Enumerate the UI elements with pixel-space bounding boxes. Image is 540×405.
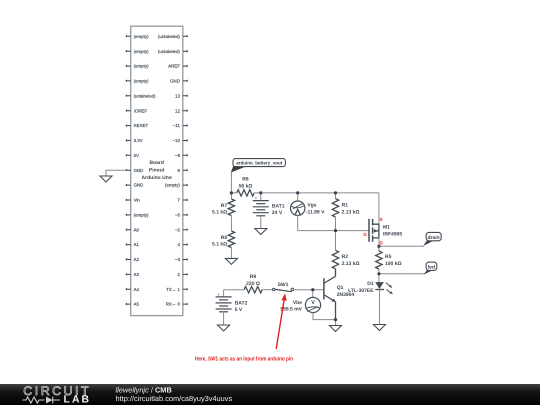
wire R7 to R8 [230, 216, 232, 232]
svg-text:+: + [255, 195, 258, 200]
svg-text:5V: 5V [134, 153, 139, 158]
svg-text:2.13 kΩ: 2.13 kΩ [342, 209, 360, 215]
LED D1 LTL-307EE [348, 274, 393, 325]
node junction dot [334, 191, 337, 194]
net flag arduino_battery_vout [231, 159, 286, 173]
svg-text:56 kΩ: 56 kΩ [239, 184, 253, 190]
svg-text:S: S [380, 217, 383, 222]
pin right 11 ((empty)) [165, 183, 187, 188]
logo schematic doodle (resistor + diode) [23, 397, 61, 404]
svg-text:~10: ~10 [172, 138, 180, 143]
svg-text:Vin: Vin [134, 198, 141, 203]
voltmeter Vgs (flipped) [291, 193, 326, 231]
svg-text:M1: M1 [383, 225, 390, 231]
node junction dot [377, 272, 380, 275]
pin left 14 (A0) [126, 227, 139, 232]
resistor R2 [332, 231, 359, 269]
switch SW1 [272, 282, 293, 292]
svg-text:959.5 mV: 959.5 mV [280, 307, 302, 313]
pin right 7 (~11) [173, 123, 187, 128]
svg-text:V: V [311, 300, 315, 306]
svg-text:~6: ~6 [175, 213, 181, 218]
svg-text:5.1 kΩ: 5.1 kΩ [212, 242, 227, 248]
svg-text:R9: R9 [250, 274, 257, 280]
pin right 8 (~10) [172, 138, 187, 143]
svg-text:A4: A4 [134, 287, 140, 292]
svg-text:220 Ω: 220 Ω [246, 281, 260, 287]
wire flag to top rail [230, 170, 232, 193]
pin right 6 (12) [175, 108, 187, 113]
pin right 16 (~3) [175, 257, 187, 262]
pin right 19 (RX← 0) [166, 302, 187, 307]
svg-text:BAT1: BAT1 [272, 203, 285, 209]
svg-text:~5: ~5 [175, 227, 181, 232]
ground below BAT1 [255, 229, 267, 235]
svg-text:LAB: LAB [64, 394, 92, 405]
svg-text:arduino_battery_vout: arduino_battery_vout [236, 161, 282, 167]
wire MOSFET drain down [378, 238, 380, 251]
wire top rail right segment [254, 192, 379, 194]
pin right 14 (~5) [175, 227, 187, 232]
wire gate rail [298, 230, 369, 232]
pin left 5 ((unlabeled)) [126, 93, 156, 98]
svg-text:-11.99 V: -11.99 V [306, 209, 325, 215]
pin left 16 (A2) [126, 257, 139, 262]
pin right 1 ((unlabeled)) [158, 34, 187, 39]
pin left 7 (RESET) [126, 123, 148, 128]
svg-text:(unlabeled): (unlabeled) [158, 34, 181, 39]
pin left 15 (A1) [126, 242, 139, 247]
logo CIRCUIT outline text [23, 384, 91, 398]
pin right 3 (AREF) [168, 64, 187, 69]
pin right 4 (GND) [170, 79, 187, 84]
node junction dot [296, 191, 299, 194]
resistor R1 [332, 193, 359, 231]
pin right 10 (8) [177, 168, 187, 173]
pin right 5 (13) [175, 93, 187, 98]
pin left 11 (GND) [126, 183, 143, 188]
wire R9 to SW1 [262, 289, 272, 291]
svg-text:RX← 0: RX← 0 [166, 302, 181, 307]
svg-text:Here, SW1 acts as an input fro: Here, SW1 acts as an input from arduino … [195, 355, 293, 362]
svg-text:(empty): (empty) [134, 213, 149, 218]
svg-text:Vgs: Vgs [307, 203, 316, 209]
svg-text:(empty): (empty) [165, 183, 180, 188]
logo LAB text [64, 394, 92, 405]
net flag drain [423, 232, 441, 246]
pin left 12 (Vin) [126, 198, 140, 203]
svg-text:A2: A2 [134, 257, 140, 262]
voltmeter Vbe [280, 290, 335, 320]
svg-text:TX→ 1: TX→ 1 [166, 287, 180, 292]
footer url line [116, 394, 233, 403]
svg-text:G: G [363, 232, 367, 237]
svg-text:SW1: SW1 [278, 282, 289, 288]
wire R8 to ground [230, 248, 232, 259]
svg-text:~9: ~9 [175, 153, 181, 158]
net flag led [424, 262, 437, 275]
svg-text:5.1 kΩ: 5.1 kΩ [212, 210, 227, 216]
board U_board Arduino Uno pinout box [131, 26, 183, 315]
svg-text:R7: R7 [221, 203, 228, 209]
wire board GND pin to ground [106, 170, 126, 176]
ground board GND [100, 176, 112, 182]
node junction dot [334, 318, 337, 321]
svg-text:(unlabeled): (unlabeled) [134, 93, 157, 98]
svg-text:GND: GND [170, 79, 180, 84]
svg-text:(empty): (empty) [134, 79, 149, 84]
ground below D1 [374, 325, 386, 331]
svg-text:(unlabeled): (unlabeled) [158, 49, 181, 54]
pin right 15 (4) [177, 242, 187, 247]
pin left 19 (A5) [126, 302, 139, 307]
wire drain node to flag [379, 245, 424, 247]
node junction dot [377, 245, 380, 248]
svg-text:drain: drain [427, 235, 439, 241]
svg-text:100 kΩ: 100 kΩ [385, 261, 402, 267]
battery BAT1 24 V [253, 193, 285, 229]
svg-text:(empty): (empty) [134, 49, 149, 54]
resistor R7 [212, 193, 235, 216]
svg-text:Vbe: Vbe [293, 300, 302, 306]
pin left 6 (IOREF) [126, 108, 147, 113]
svg-text:Board: Board [149, 160, 163, 166]
svg-text:2.13 kΩ: 2.13 kΩ [342, 261, 360, 267]
pin left 3 ((empty)) [126, 64, 149, 69]
svg-text:llewellynjc / CMB: llewellynjc / CMB [116, 385, 172, 394]
svg-text:http://circuitlab.com/ca8yuy3v: http://circuitlab.com/ca8yuy3v4uuvs [116, 394, 233, 403]
pin right 18 (TX→ 1) [166, 287, 187, 292]
pin left 9 (5V) [126, 153, 139, 158]
svg-text:GND: GND [134, 168, 144, 173]
pin left 13 ((empty)) [126, 213, 149, 218]
pin left 18 (A4) [126, 287, 139, 292]
svg-text:Pinout: Pinout [149, 168, 165, 174]
node junction dot [311, 288, 314, 291]
wire BAT2 to R9 [224, 289, 245, 291]
svg-text:A5: A5 [134, 302, 140, 307]
svg-text:R6: R6 [242, 177, 249, 183]
svg-text:2N3904: 2N3904 [337, 292, 355, 298]
resistor R6 [237, 177, 255, 196]
svg-text:A3: A3 [134, 272, 140, 277]
svg-text:(empty): (empty) [134, 64, 149, 69]
battery BAT2 5 V [216, 290, 248, 325]
svg-text:R8: R8 [221, 235, 228, 241]
pin right 17 (2) [177, 272, 187, 277]
pin left 8 (3.3V) [126, 138, 142, 143]
resistor R9 [244, 274, 262, 293]
svg-text:D1: D1 [367, 281, 374, 287]
svg-text:24 V: 24 V [272, 210, 283, 216]
svg-text:A0: A0 [134, 227, 140, 232]
svg-text:RESET: RESET [134, 123, 149, 128]
svg-text:~11: ~11 [173, 123, 181, 128]
annotation red text [195, 355, 293, 362]
ground below BAT2 [218, 325, 230, 331]
svg-text:R5: R5 [385, 254, 392, 260]
ground below R8 [225, 258, 237, 264]
svg-text:Q1: Q1 [337, 285, 344, 291]
svg-text:13: 13 [175, 93, 180, 98]
pin left 4 ((empty)) [126, 79, 149, 84]
wire rail to MOSFET source [378, 193, 380, 224]
svg-text:led: led [428, 265, 435, 271]
svg-text:R1: R1 [342, 203, 349, 209]
node junction dot [230, 191, 233, 194]
transistor M1 IRF4905 PMOS [363, 217, 402, 245]
ground below Q1 emitter [330, 320, 342, 332]
pin right 2 ((unlabeled)) [158, 49, 187, 54]
pin left 10 (GND) [126, 168, 143, 173]
wire led node to flag [379, 273, 425, 275]
pin right 12 (7) [177, 198, 187, 203]
svg-text:R2: R2 [342, 254, 349, 260]
svg-text:BAT2: BAT2 [235, 300, 248, 306]
svg-text:IOREF: IOREF [134, 108, 148, 113]
annotation red arrow to SW1 [276, 293, 286, 349]
pin left 2 ((empty)) [126, 49, 149, 54]
resistor R8 [212, 231, 235, 248]
svg-text:GND: GND [134, 183, 144, 188]
footer author line [116, 385, 172, 394]
svg-text:A1: A1 [134, 242, 140, 247]
svg-text:12: 12 [175, 108, 180, 113]
svg-text:IRF4905: IRF4905 [383, 231, 402, 237]
wire SW1 to Q1 base [294, 289, 324, 291]
svg-text:AREF: AREF [168, 64, 180, 69]
svg-text:Arduino Uno: Arduino Uno [142, 175, 172, 181]
transistor Q1 2N3904 [324, 269, 355, 320]
svg-text:3.3V: 3.3V [134, 138, 143, 143]
node junction dot [334, 229, 337, 232]
node junction dot [259, 191, 262, 194]
svg-text:5 V: 5 V [235, 307, 243, 313]
svg-text:~3: ~3 [175, 257, 181, 262]
wire top rail left segment [231, 192, 236, 194]
svg-text:(empty): (empty) [134, 34, 149, 39]
board title text [142, 160, 172, 181]
pin right 9 (~9) [175, 153, 187, 158]
pin left 17 (A3) [126, 272, 139, 277]
resistor R5 [376, 251, 402, 274]
pin right 13 (~6) [175, 213, 187, 218]
pin left 1 ((empty)) [126, 34, 149, 39]
